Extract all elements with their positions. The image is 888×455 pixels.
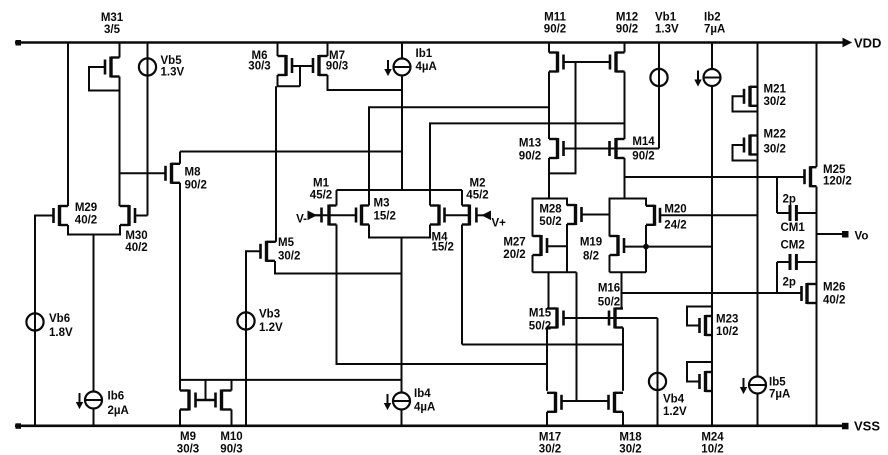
wire M9 source to VSS <box>179 410 181 426</box>
svg-text:M22: M22 <box>764 129 786 141</box>
wire M30 gate lead <box>135 215 148 217</box>
wire M12 source to M14 drain column <box>624 72 626 140</box>
svg-text:M21: M21 <box>764 84 787 96</box>
transistor M3 <box>356 205 369 226</box>
svg-text:M28: M28 <box>539 204 562 216</box>
label M5 <box>278 237 300 263</box>
label Ib2 <box>704 12 725 36</box>
wire cascode feedback left: tail to M13 source node <box>369 107 549 190</box>
wire M2 source up <box>461 190 463 206</box>
wire Vb4 line down to VSS <box>657 318 659 426</box>
transistor M21 <box>744 86 758 107</box>
voltage source Vb1 <box>650 69 667 86</box>
wire gate stub down to M13 drain line <box>549 62 576 173</box>
svg-text:M5: M5 <box>278 237 295 249</box>
svg-text:Ib4: Ib4 <box>414 388 431 400</box>
label M7 <box>326 50 348 73</box>
label M27 <box>503 237 525 262</box>
wire M9 top node horizontal <box>180 379 402 381</box>
wire M30 drain stub <box>119 205 122 207</box>
label M22 <box>764 129 786 156</box>
transistor M17 <box>547 392 562 413</box>
transistor M12 <box>610 52 625 73</box>
transistor M18 <box>609 392 624 413</box>
label M20 <box>664 204 686 232</box>
label Ib5 <box>769 377 790 401</box>
transistor M28 <box>567 204 582 225</box>
wire VDD to M12 drain <box>624 43 626 53</box>
svg-text:40/2: 40/2 <box>125 242 147 254</box>
svg-text:Vb4: Vb4 <box>663 394 685 406</box>
svg-text:8/2: 8/2 <box>583 251 599 263</box>
wire M4 source up <box>429 190 431 206</box>
svg-text:50/2: 50/2 <box>598 297 620 309</box>
wire M8 drain horizontal to Ib1 line (node) <box>180 151 402 153</box>
svg-text:45/2: 45/2 <box>466 190 488 202</box>
VSS rail <box>15 423 849 430</box>
label Vb3 <box>259 309 283 335</box>
wire M2 drain down to folded node <box>461 225 463 345</box>
label M3 <box>374 198 396 223</box>
wire M19/M16 node horizontal <box>610 271 647 273</box>
svg-text:Ib1: Ib1 <box>416 48 433 60</box>
svg-text:10/2: 10/2 <box>701 444 723 455</box>
wire gate stub down to M6 source line <box>299 66 301 86</box>
label M9 <box>177 431 199 455</box>
label M30 <box>125 230 147 254</box>
svg-text:120/2: 120/2 <box>823 176 852 188</box>
transistor M24 <box>700 371 713 392</box>
wire M27/M28 source node horizontal <box>533 271 577 273</box>
label Vb4 <box>663 394 687 419</box>
label Vb1 <box>655 12 679 36</box>
wire M11 source to M13 drain column <box>548 72 550 140</box>
output Vo tap <box>817 231 849 238</box>
label M18 <box>619 432 642 455</box>
wire node down to M17/M18 gate wire <box>576 272 578 401</box>
wire M31 source down to M30 drain <box>119 77 121 207</box>
voltage source Vb4 <box>649 373 666 390</box>
transistor M1 <box>322 205 337 226</box>
wire gate stub up to drain node <box>205 380 207 400</box>
svg-text:M10: M10 <box>220 431 242 443</box>
transistor M26 <box>802 283 817 304</box>
svg-text:45/2: 45/2 <box>310 190 332 202</box>
wire M8 source down to M9 drain <box>179 183 181 391</box>
wire M28 source down <box>566 224 568 272</box>
svg-text:90/2: 90/2 <box>544 24 566 36</box>
svg-text:CM1: CM1 <box>781 222 806 234</box>
wire M17 source to VSS <box>546 412 548 426</box>
wire VDD down to M29 drain <box>67 43 69 207</box>
wire M6 source down to M5 drain <box>275 86 277 242</box>
transistor M8 <box>166 163 181 184</box>
svg-text:90/3: 90/3 <box>220 444 242 455</box>
wire M3 source up <box>368 190 370 206</box>
svg-text:M9: M9 <box>180 431 196 443</box>
label Vb5 <box>161 55 185 79</box>
wire M27 source down <box>532 255 534 272</box>
label M23 <box>716 314 738 339</box>
wire VDD to M21 drain / M22 / Ib5 column <box>757 43 759 426</box>
wire bottom node down through Ib4 to VSS <box>401 238 403 426</box>
wire M14 drain down to M19/M20 box <box>624 158 626 199</box>
label M25 <box>823 164 852 188</box>
svg-text:30/2: 30/2 <box>539 444 561 455</box>
svg-text:M14: M14 <box>632 136 655 148</box>
svg-text:M29: M29 <box>75 202 97 214</box>
svg-text:4µA: 4µA <box>416 61 437 73</box>
wire M18 source to VSS <box>622 412 624 426</box>
label M4 <box>432 232 454 254</box>
wire M10 drain up <box>231 380 233 391</box>
transistor M11 <box>549 52 564 73</box>
svg-text:40/2: 40/2 <box>75 215 97 227</box>
voltage source Vb3 <box>237 312 254 329</box>
svg-text:M26: M26 <box>823 282 845 294</box>
svg-text:1.3V: 1.3V <box>655 24 679 36</box>
label M14 <box>632 136 655 163</box>
svg-text:40/2: 40/2 <box>823 295 845 307</box>
label M28 <box>539 204 562 229</box>
wire M27 gate to M28 source line <box>547 245 567 247</box>
svg-text:90/2: 90/2 <box>519 151 541 163</box>
svg-text:30/3: 30/3 <box>177 444 199 455</box>
transistor M19 <box>610 235 625 256</box>
svg-text:M23: M23 <box>716 314 738 326</box>
current source Ib2 <box>695 69 720 86</box>
wire VDD to M6 drain <box>277 43 279 57</box>
wire M5 source down and right to Ib4 line <box>275 261 402 274</box>
wire M20 gate lead to M21/M22 column <box>660 214 758 216</box>
wire M7 source down and right to Ib1 line <box>328 75 403 90</box>
label M29 <box>75 202 97 227</box>
transistor M16 <box>609 308 623 329</box>
input V- arrow <box>296 211 321 225</box>
wire tail node horizontal <box>337 189 463 191</box>
svg-text:M15: M15 <box>529 308 552 320</box>
label M31 <box>101 12 124 36</box>
input V+ arrow <box>476 211 506 229</box>
wire M20 source down to M19 source box <box>645 225 647 272</box>
svg-text:Vb6: Vb6 <box>49 313 70 325</box>
wire M4 gate / M2 gate wire <box>445 214 470 216</box>
wire VDD to M7 drain <box>327 43 329 57</box>
wire second stage node east to CM2/M26 gate <box>622 292 802 294</box>
label M10 <box>220 431 242 455</box>
transistor M13 <box>549 138 564 159</box>
svg-text:Vb3: Vb3 <box>259 309 280 321</box>
wire cascode feedback right: tail to M14 source node <box>430 123 625 190</box>
wire M15 source / M17 drain column <box>546 328 548 391</box>
svg-text:M1: M1 <box>313 178 330 190</box>
svg-text:15/2: 15/2 <box>374 211 396 223</box>
transistor M5 <box>261 241 276 262</box>
wire M14 drain node east to M25 gate <box>625 176 805 178</box>
svg-text:M18: M18 <box>619 432 642 444</box>
svg-text:V-: V- <box>296 214 307 226</box>
wire M29 gate to Vb6 line <box>35 216 54 426</box>
wire M1 drain down and right to M17 column <box>337 225 548 365</box>
wire M13 source down to M28 box <box>548 158 550 199</box>
svg-text:VDD: VDD <box>854 36 881 51</box>
wire M25 source down output column <box>816 187 818 305</box>
transistor M22 <box>744 135 758 156</box>
transistor M25 <box>805 166 817 187</box>
transistor M6 <box>278 55 293 76</box>
wire M10 source to VSS <box>231 410 233 426</box>
wire Ib2 column from VDD to VSS through M23/M24 <box>711 43 713 426</box>
label M15 <box>529 308 552 333</box>
svg-text:M25: M25 <box>823 164 846 176</box>
voltage source Vb6 <box>26 313 43 330</box>
wire source node to Ib6 to VSS <box>93 235 95 426</box>
svg-text:30/2: 30/2 <box>764 144 786 156</box>
wire M23 gate diode loop <box>687 307 712 326</box>
wire M1 source up <box>336 190 338 206</box>
wire M13-M14 gate wire to Vb1 <box>564 148 660 150</box>
svg-text:V+: V+ <box>492 218 507 230</box>
wire M3/M4 drains bottom node <box>369 225 430 238</box>
transistor M31 <box>105 57 120 78</box>
junction dot M20 source / M19 gate <box>644 244 649 249</box>
transistor M2 <box>462 205 476 226</box>
svg-text:M12: M12 <box>616 12 638 24</box>
svg-text:M8: M8 <box>185 167 202 179</box>
svg-text:1.2V: 1.2V <box>259 322 283 334</box>
transistor M15 <box>547 308 564 329</box>
label Ib1 <box>416 48 437 73</box>
wire M15/M16 gate wire to Vb4 line <box>564 317 658 319</box>
wire M17/M18 gate wire <box>562 400 609 402</box>
wire M8 drain up <box>179 152 181 164</box>
svg-text:1.8V: 1.8V <box>49 327 73 339</box>
transistor M29 <box>54 205 69 226</box>
transistor M7 <box>313 55 328 76</box>
wire M5 gate to Vb3 line <box>246 251 261 425</box>
wire CM2 left stub down to M26 gate line <box>776 262 778 293</box>
svg-text:7µA: 7µA <box>704 24 725 36</box>
wire M29/M30 common source node <box>68 225 120 235</box>
svg-text:1.3V: 1.3V <box>161 67 185 79</box>
svg-text:Ib2: Ib2 <box>704 12 721 24</box>
svg-text:M16: M16 <box>598 283 620 295</box>
svg-text:CM2: CM2 <box>781 240 805 252</box>
svg-text:VSS: VSS <box>854 419 880 434</box>
wire VDD to Vb5 to M30 gate <box>147 43 149 216</box>
transistor M10 <box>216 390 232 411</box>
wire VDD to M11 drain <box>548 43 550 53</box>
wire Vb1 from VDD <box>658 43 660 149</box>
current source Ib4 <box>385 393 410 410</box>
svg-text:90/2: 90/2 <box>632 151 654 163</box>
svg-text:Vb1: Vb1 <box>655 12 677 24</box>
label M12 <box>616 12 638 36</box>
voltage source Vb5 <box>139 58 156 75</box>
svg-text:10/2: 10/2 <box>716 326 738 338</box>
capacitor CM1 2p <box>777 205 817 221</box>
svg-text:1.2V: 1.2V <box>663 406 687 418</box>
wire VDD to M31 drain <box>119 43 121 58</box>
svg-text:M27: M27 <box>503 237 525 249</box>
transistor M27 <box>533 235 548 256</box>
label Ib4 <box>414 388 435 414</box>
svg-text:Ib5: Ib5 <box>769 377 786 389</box>
svg-text:2p: 2p <box>783 277 796 289</box>
svg-text:90/3: 90/3 <box>326 61 348 73</box>
transistor M9 <box>180 390 196 411</box>
wire V- / M1 gate / M3 gate wire <box>315 214 356 216</box>
wire M19 gate wire to Ib2 column <box>624 246 712 248</box>
svg-text:20/2: 20/2 <box>503 249 525 261</box>
svg-text:Vb5: Vb5 <box>161 55 183 67</box>
wire M9/M10 gate wire and stub <box>196 399 216 402</box>
wire M26 source to VSS <box>816 303 818 426</box>
label M2 <box>466 178 488 202</box>
wire M28/M27 drain box <box>533 199 568 237</box>
svg-text:50/2: 50/2 <box>539 216 561 228</box>
wire M16 source / M18 drain column <box>622 328 624 391</box>
transistor M14 <box>610 138 625 159</box>
label M6 <box>248 50 270 73</box>
label M1 <box>310 178 332 202</box>
wire node down to M15 drain <box>548 272 550 308</box>
wire VDD through Ib1 down to tail node <box>401 43 403 191</box>
label M21 <box>764 84 787 109</box>
svg-text:Ib6: Ib6 <box>108 391 125 403</box>
svg-text:4µA: 4µA <box>414 402 435 414</box>
svg-text:30/3: 30/3 <box>248 61 270 73</box>
wire M28 gate lead to M19 drain <box>582 214 610 216</box>
current source Ib1 <box>385 59 410 76</box>
svg-text:M3: M3 <box>374 198 390 210</box>
svg-text:M30: M30 <box>125 230 147 242</box>
VDD rail <box>15 39 851 47</box>
svg-text:M13: M13 <box>519 138 541 150</box>
svg-text:30/2: 30/2 <box>764 96 786 108</box>
svg-text:M31: M31 <box>101 12 124 24</box>
svg-text:M2: M2 <box>470 178 486 190</box>
wire M22 gate diode loop <box>733 145 758 161</box>
wire M6-M7 gate wire <box>292 65 313 67</box>
svg-text:M19: M19 <box>580 237 602 249</box>
current source Ib5 <box>741 377 766 394</box>
wire M19/M20 drain box <box>610 199 647 237</box>
label M26 <box>823 282 845 307</box>
wire M19 source down <box>609 255 611 272</box>
svg-text:30/2: 30/2 <box>619 444 641 455</box>
wire VDD to M25 drain <box>816 43 818 168</box>
transistor M23 <box>700 315 713 336</box>
svg-text:M24: M24 <box>701 432 724 444</box>
label M19 <box>580 237 602 263</box>
label M13 <box>519 138 541 163</box>
svg-text:2µA: 2µA <box>108 405 129 417</box>
svg-text:30/2: 30/2 <box>278 251 300 263</box>
svg-text:3/5: 3/5 <box>104 24 121 36</box>
wire M8 gate to M31/M30 column <box>120 172 166 174</box>
wire M6 source diode connection <box>278 75 301 86</box>
transistor M20 <box>646 205 660 226</box>
wire M21 gate diode loop <box>733 96 758 111</box>
svg-text:90/2: 90/2 <box>185 180 207 192</box>
transistor M30 <box>120 205 135 226</box>
wire M31 gate loop <box>89 67 120 91</box>
label M11 <box>544 12 567 36</box>
wire node down to M16 drain <box>621 272 623 308</box>
label M16 <box>598 283 620 309</box>
label Ib6 <box>108 391 129 418</box>
transistor M4 <box>430 205 445 226</box>
svg-text:M11: M11 <box>544 12 566 24</box>
label M17 <box>539 432 561 455</box>
wire folded node horizontal to M16/M18 column <box>462 344 623 346</box>
current source Ib6 <box>77 392 102 409</box>
label M24 <box>701 432 724 455</box>
label M8 <box>185 167 207 192</box>
svg-text:24/2: 24/2 <box>664 220 686 232</box>
svg-text:90/2: 90/2 <box>616 24 638 36</box>
svg-text:2p: 2p <box>783 194 796 206</box>
svg-text:7µA: 7µA <box>769 389 790 401</box>
wire M11-M12 gate wire <box>564 61 611 63</box>
svg-text:M17: M17 <box>539 432 561 444</box>
wire CM1 top stub <box>776 177 778 213</box>
svg-text:M20: M20 <box>664 204 686 216</box>
capacitor CM2 2p <box>777 254 817 270</box>
wire M5 drain stub x <box>275 241 276 243</box>
label Vb6 <box>49 313 73 339</box>
wire M24 gate diode loop <box>687 362 712 382</box>
svg-text:15/2: 15/2 <box>432 242 454 254</box>
svg-text:Vo: Vo <box>855 231 869 243</box>
